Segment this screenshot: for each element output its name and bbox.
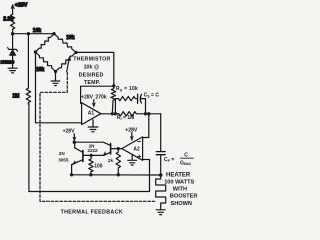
ground (bridge bottom) [51, 72, 60, 86]
wire A2 + input [143, 159, 150, 161]
resistor 100 (3055 base) [89, 155, 94, 174]
base node dot [90, 154, 93, 157]
ground (heater) [156, 210, 165, 215]
A2 minus sign [138, 141, 141, 143]
svg-text:TEMP.: TEMP. [84, 80, 101, 86]
svg-text:270k: 270k [95, 95, 106, 101]
svg-text:RS = 10k: RS = 10k [116, 86, 138, 92]
node junction dots [11, 32, 14, 35]
bridge resistor 10k upper-left [36, 34, 55, 52]
svg-text:A2: A2 [133, 147, 140, 153]
node line junction dots [111, 112, 114, 115]
heater element [156, 175, 166, 209]
svg-text:2k: 2k [108, 158, 114, 163]
bridge vertex dots [34, 50, 37, 53]
resistor 1M [26, 34, 30, 104]
A1 supply arrow [92, 100, 95, 108]
svg-text:THERMAL FEEDBACK: THERMAL FEEDBACK [61, 209, 124, 215]
wire bridge right vertex to 270k node [76, 52, 114, 86]
svg-text:CF =: CF = [164, 157, 174, 163]
resistor Rs 10k with capacitor Cs branch [115, 94, 145, 114]
transistor Q1 2N2222 [74, 142, 110, 156]
wire emitter output line [72, 174, 161, 176]
svg-text:10k: 10k [36, 67, 45, 73]
+28V supply arrow (booster rail) [73, 134, 76, 142]
output line dots [70, 173, 73, 176]
A2 supply arrow [130, 133, 133, 141]
bridge resistor 10k lower-left [36, 52, 56, 72]
label CF = C/Gmax [164, 152, 194, 166]
wire bridge left vertex to A1 input [36, 52, 82, 123]
rail junction dot [73, 141, 76, 144]
thermistor (bridge lower-right arm) [56, 52, 77, 71]
zener diode 1N829 [8, 34, 18, 68]
svg-text:10k @: 10k @ [84, 65, 99, 71]
wire feedback loop (1M line) [28, 104, 149, 192]
svg-text:DESIRED: DESIRED [79, 72, 104, 78]
svg-text:THERMISTOR: THERMISTOR [73, 57, 110, 63]
wire A2 output to 2N2222 base [111, 148, 122, 150]
transistor Q2 2N3055 [72, 142, 83, 175]
label HEATER block [164, 173, 197, 207]
resistor 270k (feedback) [111, 86, 116, 114]
ground (A1) [88, 120, 98, 132]
svg-text:2222: 2222 [87, 148, 98, 153]
svg-text:10k: 10k [66, 35, 75, 41]
svg-text:HEATER: HEATER [166, 173, 191, 179]
svg-text:Ri = 1M: Ri = 1M [117, 115, 134, 121]
capacitor CF [156, 152, 165, 175]
wire A1 output node line [101, 113, 119, 115]
svg-text:+28V: +28V [63, 128, 75, 134]
svg-text:10k: 10k [33, 28, 42, 34]
svg-text:2N: 2N [59, 151, 66, 156]
wire node line down through CF [160, 114, 162, 151]
svg-text:3055: 3055 [58, 158, 69, 163]
op-amp A2 (points left) [122, 137, 143, 160]
label 2N 3055 [58, 151, 69, 163]
label 2N 2222 [87, 143, 98, 153]
svg-text:C: C [184, 152, 188, 158]
node dot (thermistor / 270k / A1 input) [112, 84, 115, 87]
resistor 2k (A2 output) [116, 149, 120, 175]
+28V supply arrow top left [11, 4, 14, 14]
svg-text:+28V: +28V [81, 95, 94, 101]
svg-text:GMAX: GMAX [180, 160, 192, 166]
bridge resistor 10k upper-right [54, 34, 76, 53]
wire to A2 inverting input [142, 114, 148, 138]
ground (zener) [8, 68, 17, 73]
svg-text:+28V: +28V [15, 2, 28, 8]
svg-text:1N829: 1N829 [0, 60, 14, 65]
wire A1 inverting input up to node [81, 86, 114, 103]
A2 plus sign [138, 155, 141, 158]
svg-text:CS = C: CS = C [144, 92, 160, 98]
svg-text:100 WATTS: 100 WATTS [164, 180, 194, 186]
resistor Ri 1M (in node line) [115, 112, 160, 116]
svg-text:1M: 1M [12, 94, 19, 100]
svg-text:2.9k: 2.9k [3, 17, 13, 23]
svg-text:SHOWN: SHOWN [171, 201, 192, 207]
label THERMISTOR block [73, 57, 110, 86]
svg-text:BOOSTER: BOOSTER [170, 194, 198, 200]
resistor 2.9k [10, 14, 14, 34]
svg-text:100: 100 [94, 164, 103, 170]
svg-text:WITH: WITH [173, 187, 187, 193]
ground (A2) [128, 154, 137, 165]
dashed thermal feedback path [40, 73, 155, 202]
svg-text:A1: A1 [88, 111, 95, 117]
wire top node [13, 33, 54, 35]
A1 plus sign (lower input) [84, 120, 86, 122]
thermistor arrow [67, 56, 71, 72]
op-amp A1 [82, 103, 101, 125]
2k top dot [117, 147, 120, 150]
